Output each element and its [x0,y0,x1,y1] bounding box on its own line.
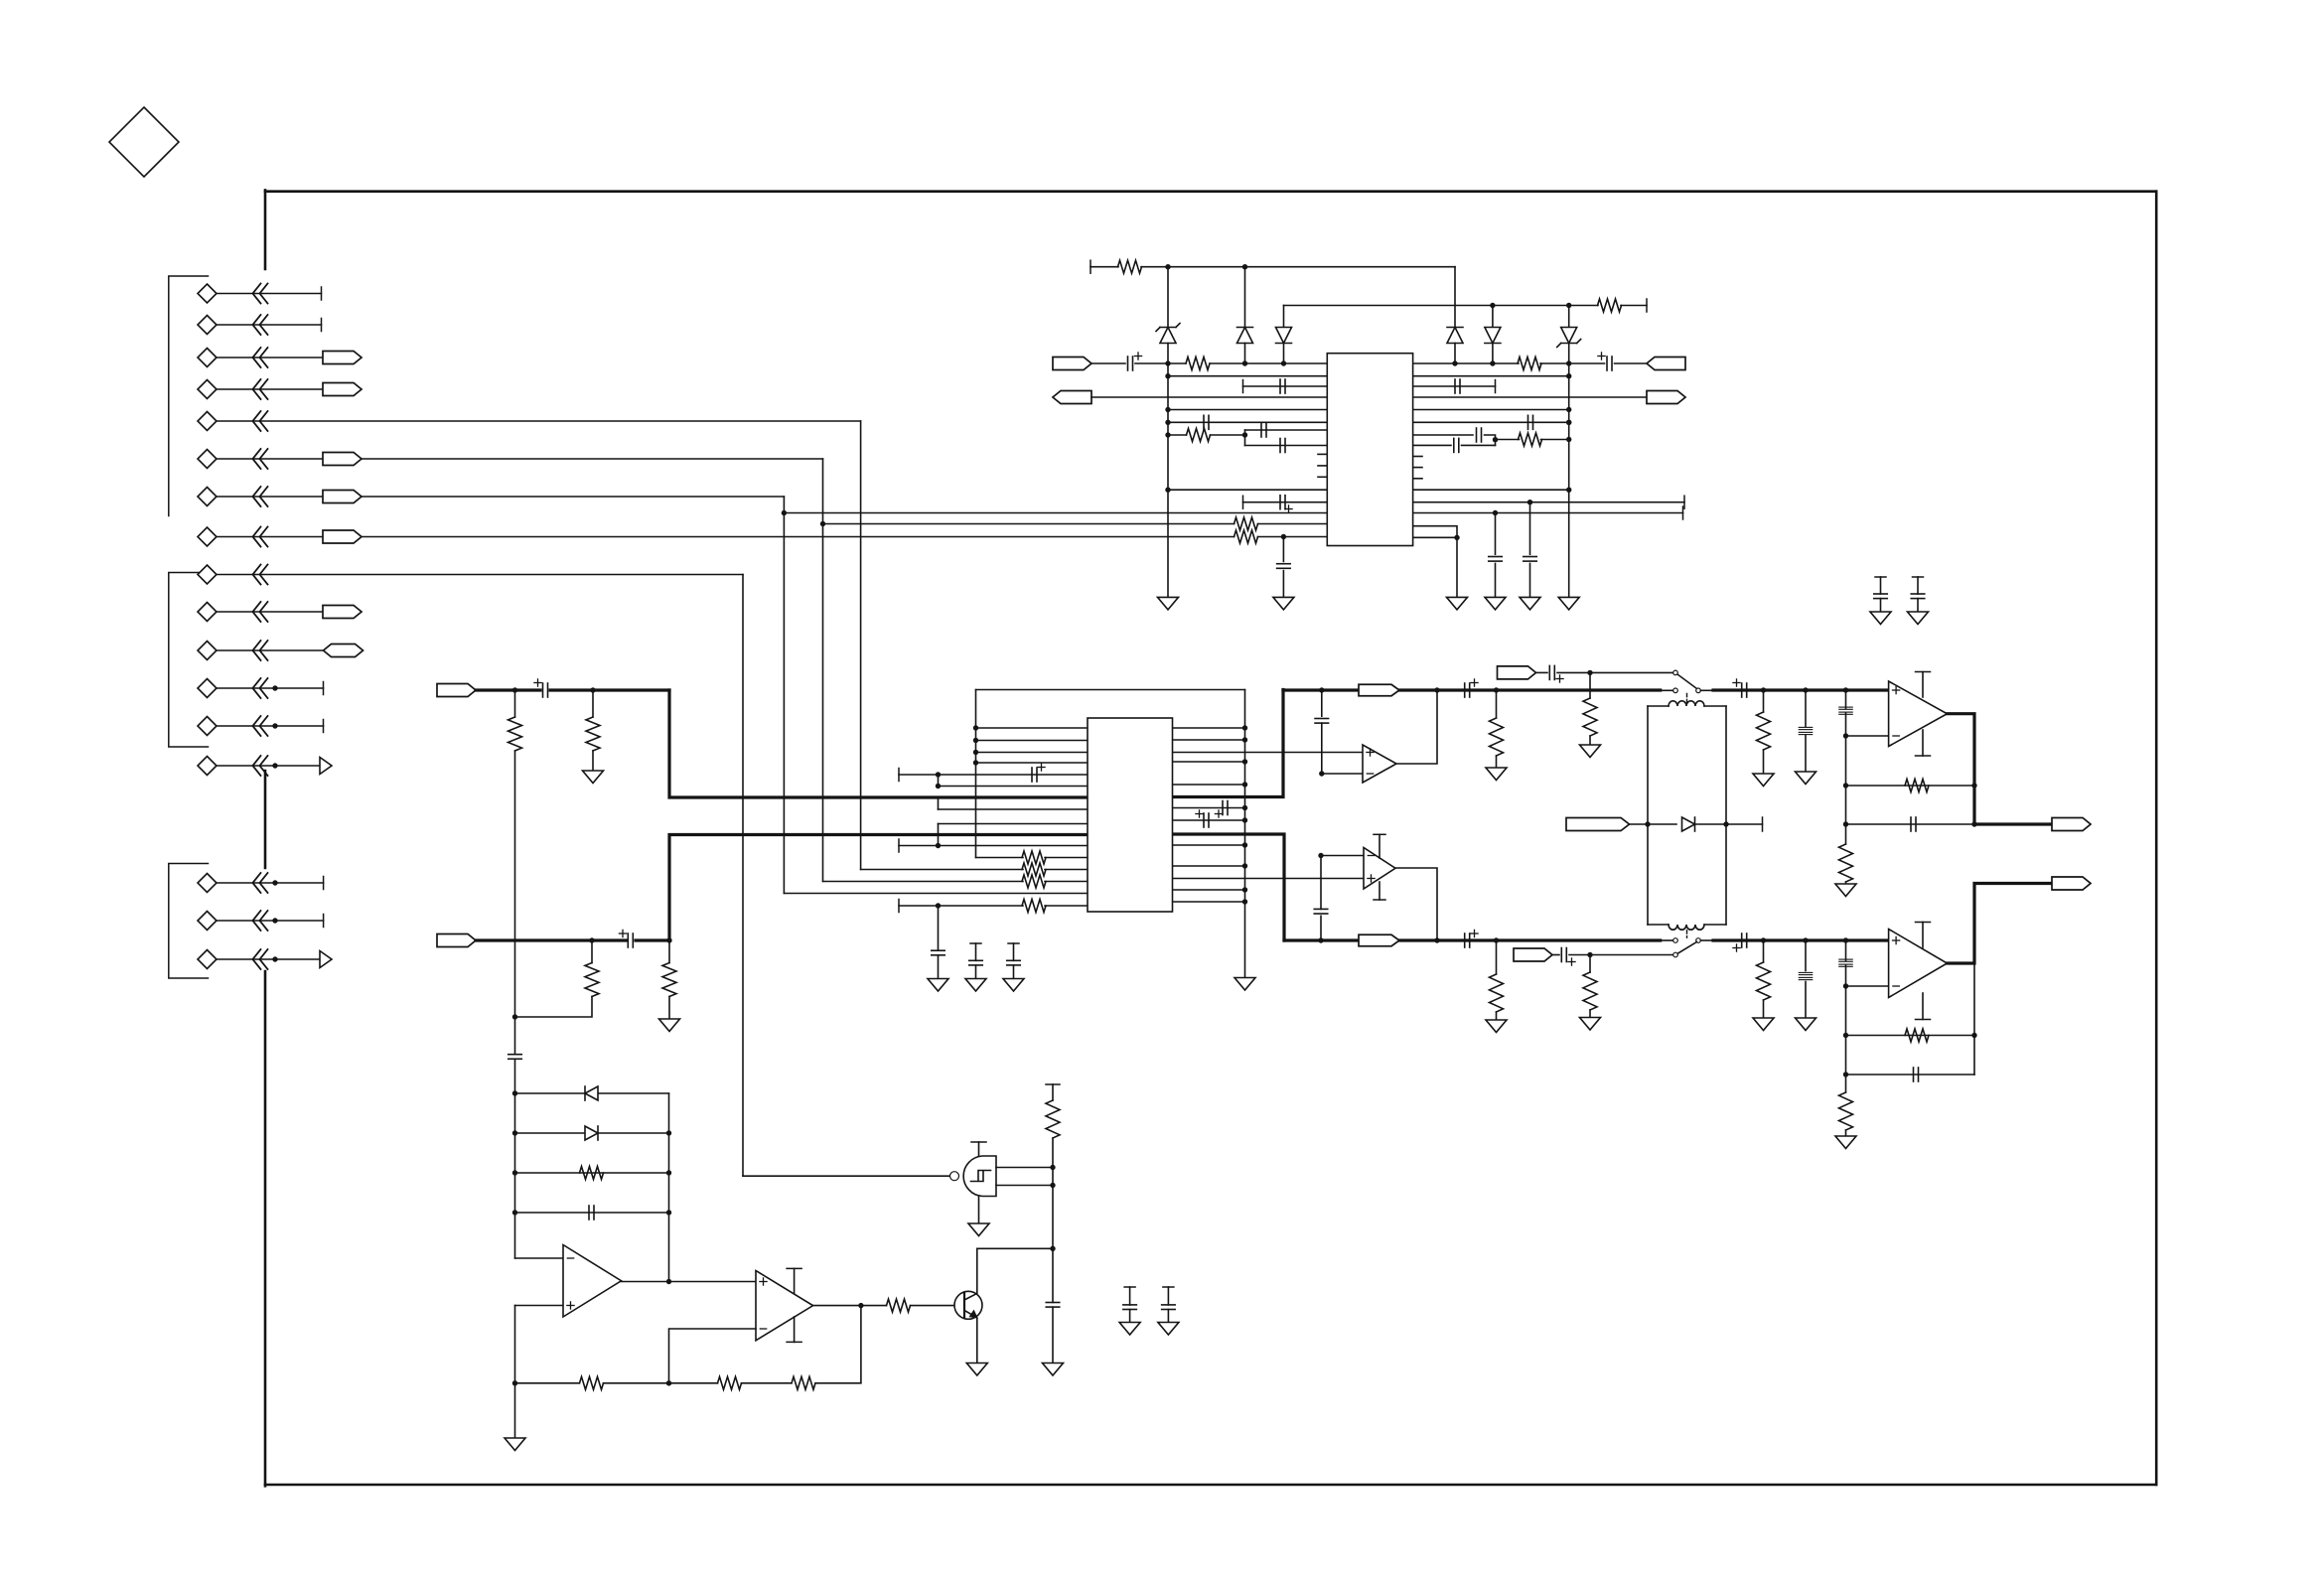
thick wire INL corner down [669,690,1088,797]
net label hex row11 [324,645,363,657]
bus entry chevron row 11 [253,641,268,660]
relay K1 top coil [1669,701,1704,706]
wire U5B inv input [669,1329,757,1383]
capacitor C-dec2 [1489,557,1503,562]
transistor Q1 collector [964,1248,977,1300]
thick wire U4B out [1948,884,2053,964]
junction [272,685,277,690]
thick wire out L rail [1283,688,1661,691]
bus entry chevron row 6 [253,449,268,469]
wire [1168,375,1327,377]
decoupling cap net tick [1124,1286,1135,1288]
switch SW-L throw A [1673,670,1678,675]
capacitor C-acR [1742,933,1747,947]
op-amp U3A [1363,745,1396,783]
resistor R-base [887,1299,911,1312]
op-amp U4B [1889,930,1948,998]
junction [1761,937,1766,942]
wire [1135,362,1186,364]
wire [1541,439,1569,441]
wire [1492,344,1494,364]
wire [1917,599,1919,612]
IC1 right pin stub [1413,478,1422,480]
wire U3B inv row [1321,855,1364,857]
power stub U4A top [1916,672,1931,698]
diode D1 [1237,328,1253,344]
wire IC2 pin row 791.5 [939,786,1089,788]
wire [1917,577,1919,594]
IC1 interface body [1327,354,1412,546]
wire [1569,954,1673,956]
junction [1050,1183,1055,1188]
capacitor C-l505 [1280,496,1285,509]
relay K1 bottom coil [1669,925,1704,930]
net label OUTR pill [2052,877,2091,890]
decoupling cap net tick [970,942,981,944]
ground [1796,772,1816,785]
resistor R-INR bias [585,963,599,997]
junction [1803,687,1808,692]
diode D4 [1485,328,1501,344]
wire link 803-815 [938,797,940,809]
power stub U5B bottom [787,1317,801,1342]
capacitor C-fb inv R [1839,959,1853,966]
capacitor C-l389 [1280,379,1285,393]
capacitor C-acL [1742,683,1747,697]
wire row6 vertical [822,459,824,882]
decoupling capacitor [1911,594,1925,599]
wire row end [217,687,324,689]
wire [1045,905,1088,907]
connector pin diamond row 16 [198,912,217,931]
wire [1091,396,1327,398]
capacitor C-INR [628,933,633,947]
wire [1168,409,1327,411]
wire row7 horizontal [362,496,784,498]
resistor R-r442 [1519,433,1542,446]
junction [1761,687,1766,692]
wire IC2 left bus [975,690,977,858]
net label pill row10 [323,606,362,619]
IC1 left pin stub [1318,453,1327,455]
wire [1540,362,1605,364]
capacitor C-l425 [1204,415,1209,429]
wire [1045,869,1088,871]
bus entry chevron row 7 [253,487,268,506]
net tick [1683,496,1685,508]
wire link 780-791 [938,775,940,787]
wire IC2 right pin [1173,739,1245,741]
decoupling capacitor [1874,594,1888,599]
IC1 right pin stub [1413,456,1422,458]
wire row17 [217,958,320,960]
thick wire U4A out [1948,714,2053,824]
wire [1495,513,1497,555]
thick wire INR b [636,938,669,941]
wire [1413,385,1496,387]
transistor Q1 body [954,1291,982,1319]
diode D-relay [1682,817,1695,831]
junction [272,763,277,768]
junction [1587,670,1592,675]
wire [1052,1307,1054,1363]
junction [1566,407,1571,412]
wire [1282,571,1284,598]
capacitor C-r389 [1455,379,1460,393]
capacitor C-outL [1465,683,1470,697]
ground [928,979,948,992]
capacitor C-r448 [1454,438,1459,452]
wire link to switch [1661,689,1673,691]
junction [1319,687,1324,692]
wire [1568,306,1570,328]
junction row8 decoup [1281,534,1286,539]
wire IC2 right pin [1173,901,1245,903]
junction right bus [1242,782,1247,787]
junction [1566,488,1571,493]
wire fb cap row L [1846,823,1975,825]
ground [1486,1020,1507,1033]
wire row11 to label [217,649,324,651]
net label MONR pill [1514,948,1552,961]
wire to net label [217,357,323,359]
resistor R-termL [1490,718,1504,756]
resistor R-fb3 [792,1376,815,1389]
wire [1763,690,1765,712]
wire [1013,943,1015,960]
wire [1211,434,1245,436]
junction [1050,1246,1055,1251]
wire IC2 left pin [976,762,1089,764]
wire [1168,489,1327,491]
connector pin diamond row 12 [198,679,217,698]
wire base [911,1305,955,1307]
tick row 851.5 [898,839,900,852]
decoupling cap net tick [1163,1286,1174,1288]
wire row cap [515,1212,669,1214]
wire [1045,881,1088,883]
gate input pin 2 [996,1185,1053,1187]
wire [1243,385,1328,387]
junction [272,723,277,728]
wire [1845,882,1847,884]
junction [272,880,277,885]
bus entry chevron row 2 [253,315,268,335]
junction [1843,733,1848,738]
polarity plus [1733,944,1740,951]
wire IC2 right pin [1173,844,1245,846]
junction [1490,303,1495,308]
capacitor C-rect fb [589,1206,594,1219]
thick wire INR corner up [669,835,1088,941]
wire [1167,344,1169,598]
polarity plus [1134,353,1141,359]
switch SW-L lever [1677,674,1696,688]
IC1 right pin stub [1413,467,1422,469]
ground [583,771,604,784]
wire [1052,1084,1054,1100]
wire collector to rail [977,1247,1053,1249]
polarity plus [619,930,626,936]
resistor R-863 [1022,851,1046,864]
polarity plus [1215,810,1222,817]
wire U3A out [1396,690,1437,764]
thick wire out R rail [1284,938,1661,941]
wire row9 to gate [743,1175,949,1177]
wire row end [217,293,322,295]
ground [968,1223,989,1236]
bus entry chevron row 10 [253,602,268,622]
wire [1244,344,1246,364]
capacitor C-rail [1046,1303,1060,1308]
transistor Q1 base bar [963,1293,965,1319]
power stub U5B top [787,1268,801,1293]
wire U5A output [622,1281,757,1283]
gate schmitt mark [971,1171,991,1182]
junction [1434,687,1439,692]
junction [1843,821,1848,826]
polarity plus [1471,679,1478,686]
ground [1753,774,1774,787]
net label MONL pill [1498,666,1536,679]
capacitor C-fbR [1314,909,1328,914]
wire [1845,713,1847,844]
net label pill row400 R [1647,391,1685,404]
wire IC2 left pin [976,752,1089,754]
no-connect tick [323,682,325,695]
connector pin diamond row 9 [198,565,217,584]
wire [1589,736,1591,745]
resistor R-aout [1518,358,1541,370]
wire [1615,362,1648,364]
ground [1447,597,1468,610]
wire [975,943,977,960]
junction [1843,937,1848,942]
connector pin diamond row 4 [198,380,217,399]
junction left bus [973,760,978,765]
decoupling capacitor [1162,1305,1176,1310]
junction [1566,437,1571,442]
ground [1119,1323,1140,1336]
resistor R-termR [1490,974,1504,1012]
junction [1803,937,1808,942]
junction [272,918,277,923]
resistor R-monR [1583,972,1597,1010]
junction right bus [1242,863,1247,868]
resistor R-monL [1583,698,1597,736]
wire IC2 right pin [1173,761,1245,763]
switch SW-R common [1696,938,1701,943]
relay K1 bottom edge [1648,924,1726,926]
wire [1845,940,1847,960]
bus entry chevron row 4 [253,379,268,399]
tick row 780 [898,769,900,782]
decoupling capacitor [969,960,983,965]
wire [1529,502,1531,555]
power stub U4A bottom [1916,730,1931,756]
junction right bus [1242,842,1247,847]
ground [1273,597,1294,610]
junction [1843,783,1848,788]
net label AIN pill [1053,358,1091,370]
wire [1320,916,1322,940]
junction [1843,687,1848,692]
junction left bus [973,738,978,743]
wire [1413,409,1569,411]
wire [1283,306,1285,328]
junction [936,903,941,908]
wire IC2 pin row 851.5 [899,845,1088,847]
wire U4A inv row [1846,735,1889,737]
connector pin diamond row 13 [198,717,217,736]
wire IC2 pin row 912 [899,905,1023,907]
thick wire IC2 out R [1173,834,1285,940]
resistor R-875 [1022,863,1046,876]
wire top rail b [1141,266,1455,268]
resistor R-l527 [1235,517,1258,530]
no-connect tick [323,877,325,890]
junction INR corner [666,937,671,942]
wire row7 vertical [783,497,785,894]
capacitor C-monL [1549,665,1554,679]
wire [1805,982,1807,1019]
junction [1490,360,1495,365]
wire [592,690,594,717]
capacitor C-outR [1465,933,1470,947]
wire IC2 pin row 863.5 [976,857,1024,859]
wire row 527.5 a [823,523,1235,525]
wire row diode1 [515,1092,669,1094]
wire [1245,445,1328,447]
wire [514,690,516,717]
wire [1495,563,1497,597]
connector pin diamond row 1 [198,284,217,303]
bus entry chevron row 16 [253,911,268,931]
net label OUTL pill [2052,818,2091,831]
wire [1168,421,1327,423]
wire U3B out [1395,868,1437,940]
page border frame left edge segment 2 [264,771,267,868]
junction [1165,360,1170,365]
junction [666,1130,671,1135]
bus entry chevron row 8 [253,527,268,547]
junction [666,1380,671,1385]
ground [1043,1363,1064,1376]
wire row10 to label [217,611,323,613]
capacitor C-dec1 [1277,564,1291,569]
wire [1091,362,1125,364]
switch SW-R throw B [1673,938,1678,943]
resistor R-fb L [1905,780,1929,792]
wire fb res row L [1846,785,1975,787]
wire row8 resistor to IC1 [1258,536,1328,538]
wire IC2 pin row 887.5 [823,881,1024,883]
polarity plus [1556,675,1563,682]
wire link to switch [1661,939,1673,941]
wire rail left [514,1059,516,1258]
wire row end [217,920,324,922]
thick wire INL a [476,688,540,691]
capacitor C-fbL [1315,719,1329,724]
wire [1282,537,1284,562]
polarity plus [1598,353,1605,359]
wire IC2 pin row 875.5 [861,869,1023,871]
power stub U4B bottom [1916,993,1931,1020]
tick row 912 [898,900,900,913]
thick wire post-switch L [1713,688,1889,691]
resistor R-rail1 [1118,260,1142,273]
net label pill row6 [323,453,362,466]
wire row14 [217,765,320,767]
capacitor C-fb R [1914,1068,1919,1081]
junction left bus [973,725,978,730]
wire row5 vertical [860,421,862,870]
ground [1486,768,1507,781]
no-connect tick [323,720,325,733]
wire [1529,563,1531,597]
junction [1566,303,1571,308]
junction [1318,937,1323,942]
junction [1165,420,1170,425]
open arrow row17 [320,951,332,968]
relay K1 right edge [1725,706,1727,925]
wire [1454,344,1456,364]
no-connect tick [321,319,323,332]
transistor Q1 emitter [964,1311,977,1363]
connector pin diamond row 15 [198,874,217,893]
wire [1413,536,1457,538]
junction INL/gnd-res [590,687,595,692]
resistor R-gndR1 [1757,962,1771,1000]
wire [1880,599,1882,612]
junction [936,772,941,777]
net label INR pill [437,934,476,947]
wire IC2 right pin row 757.5 [1173,752,1364,754]
wire IC2 right pin row 813.5 [1173,807,1245,809]
wire [1245,429,1328,431]
no-connect tick [323,915,325,928]
wire [1492,306,1494,328]
relay K1 top edge [1648,705,1726,707]
capacitor C-r438 [1477,428,1482,442]
switch SW-L throw B [1673,688,1678,693]
wire [1413,512,1683,514]
wire [515,997,593,1018]
capacitor C-l433 [1261,423,1266,437]
wire row8 to IC1 [362,536,1235,538]
net tick [1495,380,1497,393]
junction [936,843,941,848]
wire [1413,375,1569,377]
polarity plus [1568,958,1575,965]
junction [1319,771,1324,776]
net label RELAY pill [1566,818,1630,831]
connector pin diamond row 5 [198,412,217,431]
relay K1 left edge [1647,706,1649,925]
bus entry chevron row 1 [253,284,268,304]
junction [1527,500,1532,504]
sheet revision diamond marker [109,107,179,177]
polarity plus [534,679,541,686]
connector pin diamond row 2 [198,316,217,335]
op-amp U5B [756,1271,813,1341]
gate U6 body [963,1156,996,1197]
ground [659,1019,680,1032]
junction [1494,687,1499,692]
wire [1413,489,1569,491]
net tick top rail [1089,260,1091,273]
wire fb cap row R [1846,1074,1975,1076]
